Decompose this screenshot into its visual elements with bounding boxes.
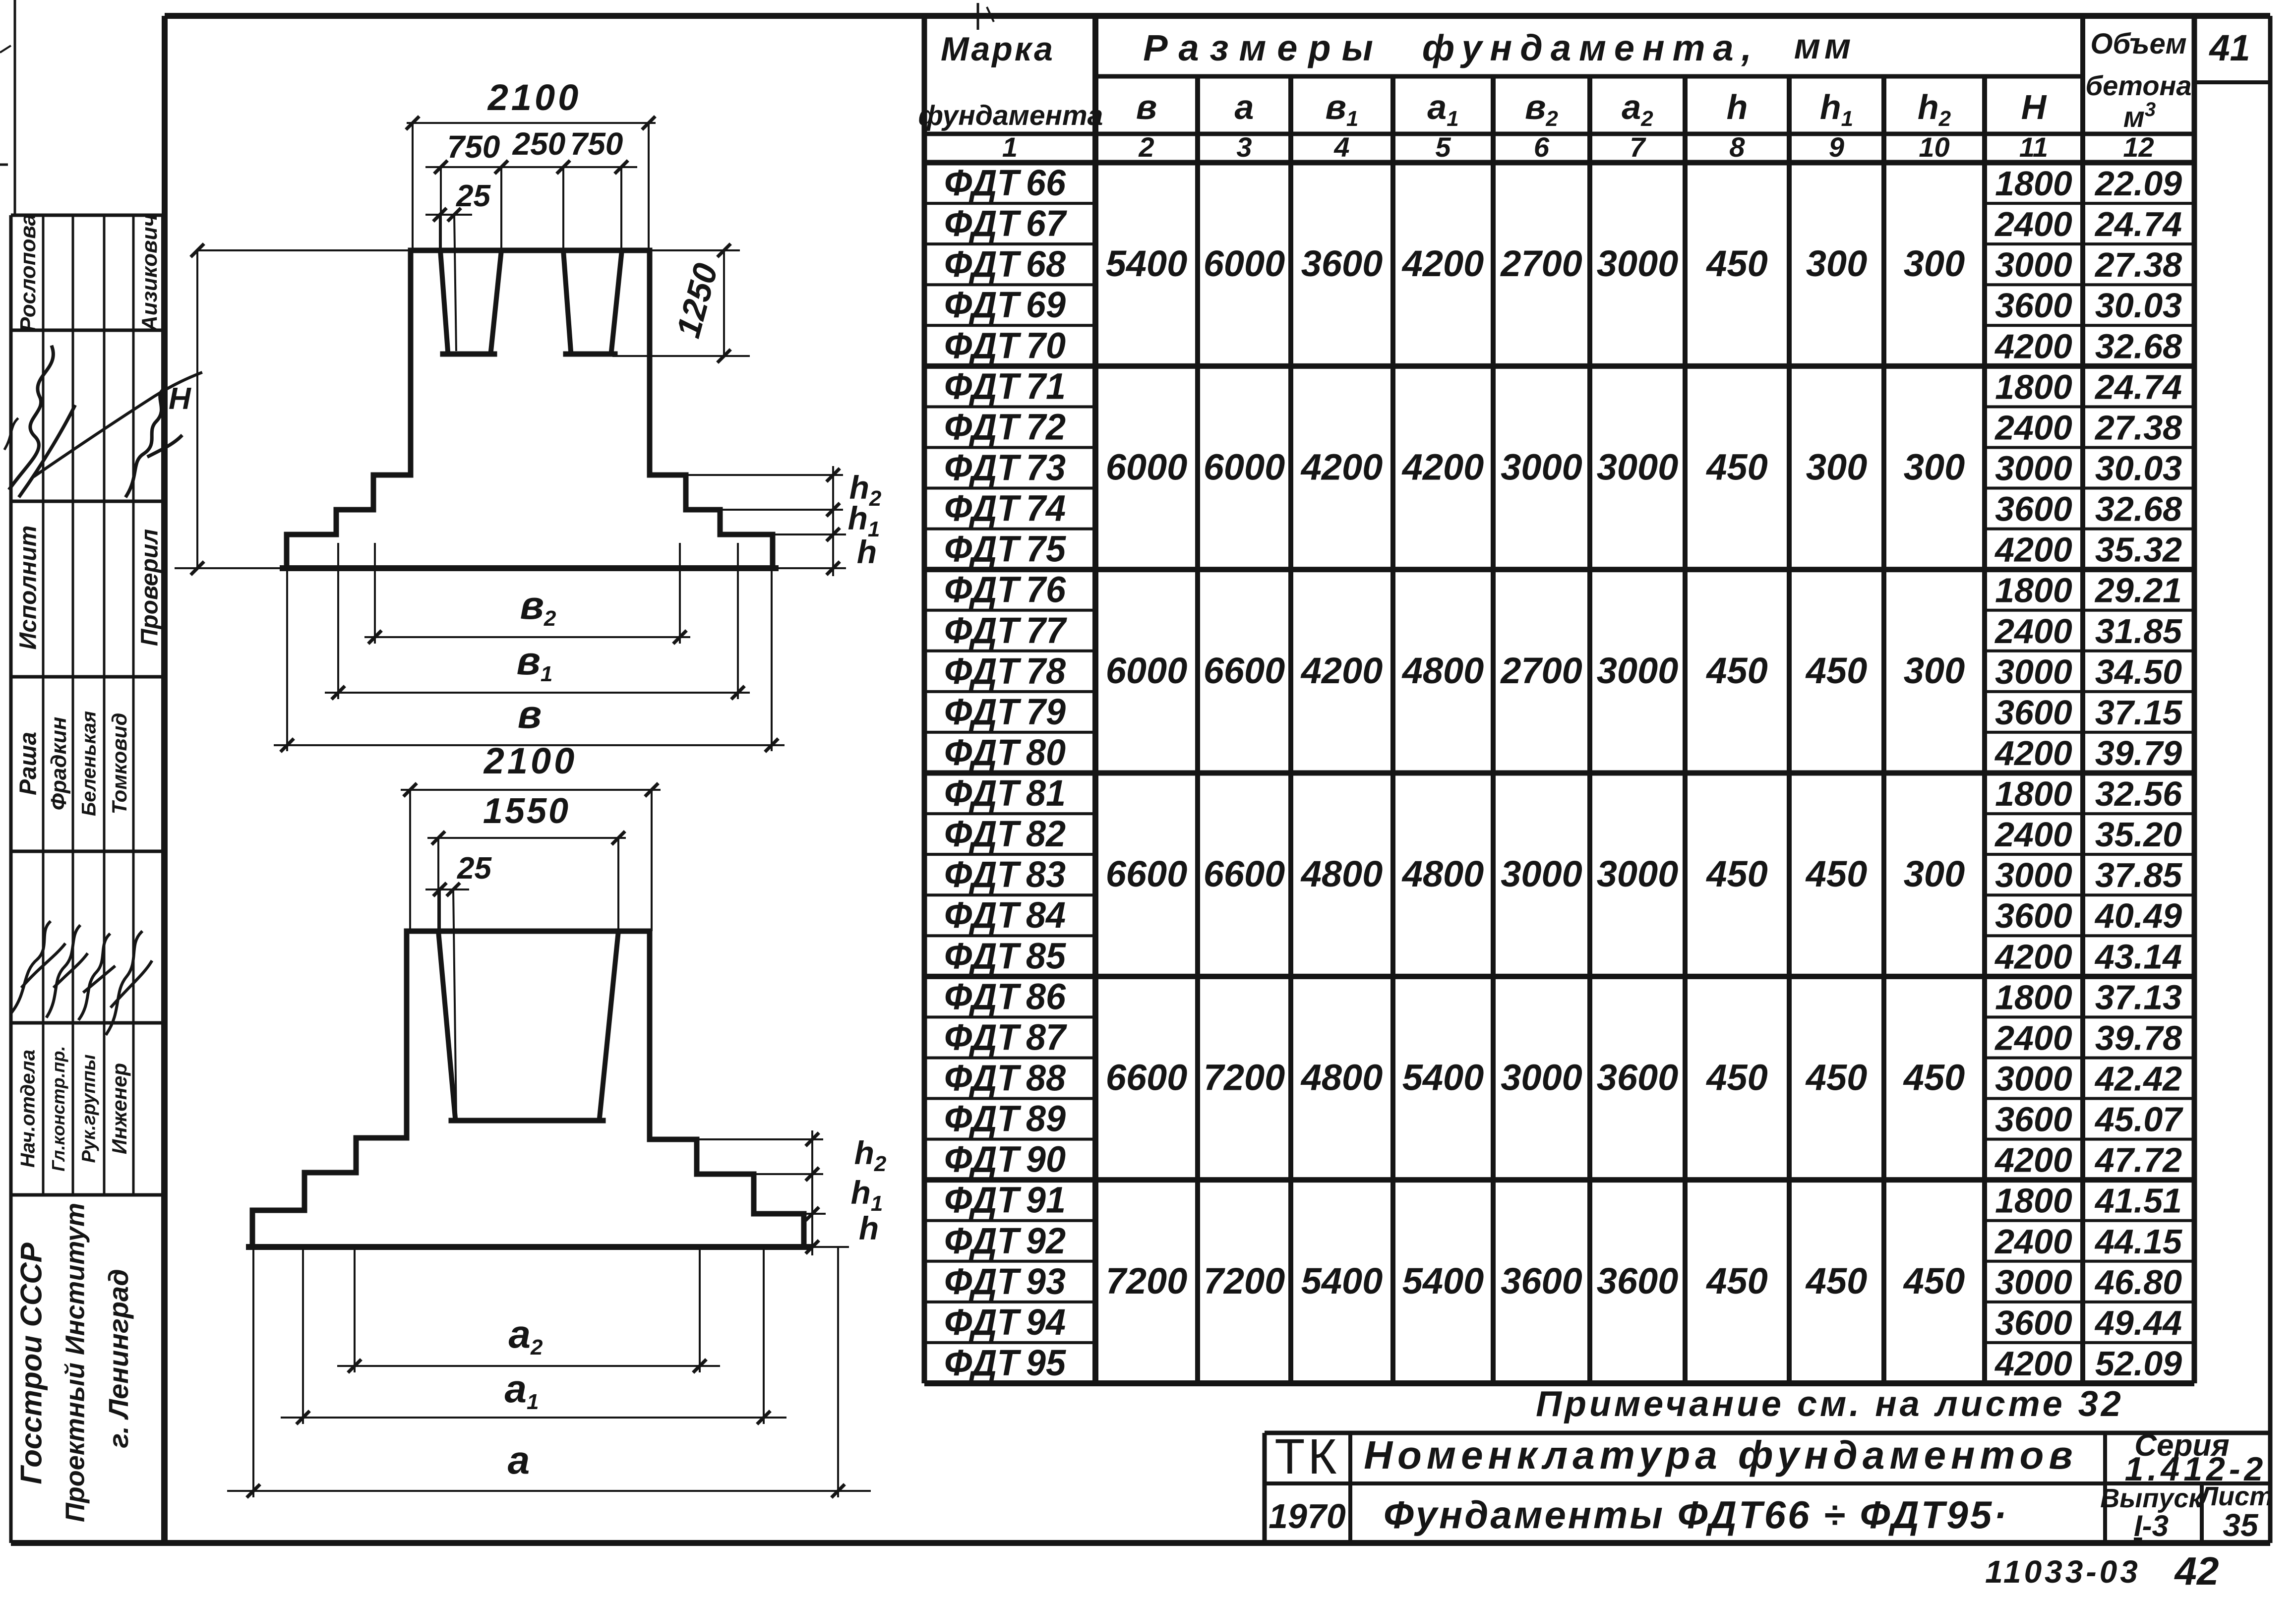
- svg-text:450: 450: [1805, 1260, 1867, 1302]
- svg-text:3000: 3000: [1995, 1060, 2072, 1098]
- svg-text:Рук.группы: Рук.группы: [79, 1055, 100, 1163]
- svg-text:4200: 4200: [1994, 734, 2072, 772]
- svg-text:ФДТ 88: ФДТ 88: [944, 1058, 1066, 1099]
- svg-text:29.21: 29.21: [2094, 571, 2182, 610]
- svg-text:450: 450: [1705, 1260, 1767, 1302]
- svg-text:10: 10: [1919, 131, 1949, 163]
- svg-text:40.49: 40.49: [2094, 896, 2182, 935]
- svg-text:2: 2: [1138, 131, 1154, 163]
- svg-text:32.68: 32.68: [2095, 490, 2182, 529]
- svg-text:ФДТ 76: ФДТ 76: [944, 569, 1066, 610]
- svg-text:а: а: [508, 1438, 530, 1482]
- svg-text:2700: 2700: [1500, 650, 1582, 691]
- svg-text:Номенклатура фундаментов: Номенклатура фундаментов: [1364, 1433, 2077, 1477]
- svg-text:1800: 1800: [1995, 367, 2072, 406]
- svg-text:42.42: 42.42: [2094, 1060, 2182, 1098]
- svg-text:7200: 7200: [1204, 1057, 1285, 1098]
- svg-text:3000: 3000: [1995, 245, 2072, 284]
- svg-text:3000: 3000: [1597, 853, 1679, 894]
- svg-text:2400: 2400: [1994, 205, 2072, 243]
- svg-text:ФДТ 94: ФДТ 94: [944, 1302, 1066, 1343]
- svg-text:Проверил: Проверил: [136, 529, 163, 646]
- svg-text:ФДТ 66: ФДТ 66: [944, 162, 1066, 203]
- svg-text:Лист: Лист: [2198, 1481, 2273, 1511]
- svg-text:4800: 4800: [1401, 650, 1484, 691]
- svg-text:6000: 6000: [1204, 243, 1285, 284]
- svg-text:44.15: 44.15: [2094, 1222, 2182, 1261]
- svg-text:2100: 2100: [483, 740, 578, 781]
- svg-text:5400: 5400: [1301, 1260, 1383, 1302]
- svg-text:4800: 4800: [1300, 853, 1383, 894]
- svg-text:35.20: 35.20: [2095, 815, 2182, 854]
- svg-text:3000: 3000: [1597, 243, 1679, 284]
- svg-text:3000: 3000: [1995, 449, 2072, 488]
- svg-text:3600: 3600: [1301, 243, 1383, 284]
- svg-text:3000: 3000: [1995, 856, 2072, 894]
- svg-text:4200: 4200: [1994, 531, 2072, 569]
- svg-text:31.85: 31.85: [2095, 612, 2182, 651]
- svg-text:42: 42: [2174, 1549, 2219, 1593]
- svg-text:ФДТ 67: ФДТ 67: [944, 203, 1068, 244]
- svg-text:22.09: 22.09: [2094, 164, 2182, 203]
- svg-text:24.74: 24.74: [2094, 205, 2182, 243]
- svg-text:750: 750: [570, 126, 623, 162]
- svg-text:3600: 3600: [1995, 1100, 2072, 1139]
- svg-text:3600: 3600: [1995, 490, 2072, 529]
- svg-text:3000: 3000: [1501, 447, 1582, 488]
- svg-text:4200: 4200: [1300, 650, 1383, 691]
- svg-text:7: 7: [1630, 131, 1646, 163]
- svg-text:3600: 3600: [1995, 286, 2072, 325]
- svg-text:41.51: 41.51: [2094, 1182, 2182, 1220]
- svg-text:6600: 6600: [1204, 650, 1285, 691]
- svg-text:3600: 3600: [1995, 693, 2072, 732]
- svg-text:35: 35: [2223, 1507, 2259, 1543]
- svg-text:450: 450: [1705, 650, 1767, 691]
- svg-text:1800: 1800: [1995, 164, 2072, 203]
- svg-text:300: 300: [1806, 243, 1867, 284]
- svg-text:Госстрои СССР: Госстрои СССР: [15, 1242, 48, 1484]
- svg-text:Раша: Раша: [15, 732, 41, 795]
- svg-text:Рослопова: Рослопова: [16, 214, 40, 332]
- svg-text:37.15: 37.15: [2095, 693, 2182, 732]
- svg-text:Гл.констр.пр.: Гл.констр.пр.: [48, 1046, 68, 1171]
- svg-text:Фундаменты ФДТ66 ÷ ФДТ95·: Фундаменты ФДТ66 ÷ ФДТ95·: [1384, 1493, 2008, 1537]
- svg-text:Инженер: Инженер: [108, 1063, 131, 1154]
- svg-text:ФДТ 89: ФДТ 89: [944, 1098, 1066, 1139]
- svg-text:Размеры: Размеры: [1143, 27, 1384, 68]
- svg-text:750: 750: [447, 129, 500, 165]
- svg-text:1800: 1800: [1995, 774, 2072, 813]
- svg-text:32.56: 32.56: [2095, 774, 2182, 813]
- svg-text:Томковид: Томковид: [108, 713, 131, 815]
- svg-text:12: 12: [2123, 131, 2154, 163]
- svg-text:Марка: Марка: [941, 30, 1055, 68]
- svg-text:ФДТ 69: ФДТ 69: [944, 284, 1066, 325]
- svg-text:г. Ленинград: г. Ленинград: [103, 1269, 134, 1448]
- svg-text:бетона: бетона: [2085, 70, 2191, 101]
- svg-text:ФДТ 74: ФДТ 74: [944, 488, 1066, 529]
- svg-text:6600: 6600: [1106, 1057, 1188, 1098]
- svg-text:Аизикович: Аизикович: [137, 214, 162, 332]
- svg-text:300: 300: [1904, 853, 1965, 894]
- svg-text:6600: 6600: [1204, 853, 1285, 894]
- svg-text:45.07: 45.07: [2094, 1100, 2183, 1139]
- svg-text:ФДТ 92: ФДТ 92: [944, 1220, 1066, 1261]
- svg-text:450: 450: [1705, 447, 1767, 488]
- svg-text:450: 450: [1805, 853, 1867, 894]
- svg-text:450: 450: [1805, 1057, 1867, 1098]
- svg-text:47.72: 47.72: [2094, 1141, 2182, 1180]
- svg-text:3000: 3000: [1995, 1263, 2072, 1302]
- svg-text:11: 11: [2019, 131, 2048, 163]
- svg-text:5400: 5400: [1402, 1260, 1484, 1302]
- svg-text:1800: 1800: [1995, 1182, 2072, 1220]
- svg-text:2400: 2400: [1994, 1018, 2072, 1057]
- svg-text:ФДТ 68: ФДТ 68: [944, 243, 1066, 285]
- svg-text:5400: 5400: [1402, 1057, 1484, 1098]
- svg-text:Фрадкин: Фрадкин: [47, 717, 71, 811]
- svg-text:фундамента: фундамента: [918, 100, 1103, 131]
- svg-text:1970: 1970: [1269, 1497, 1346, 1536]
- svg-text:4200: 4200: [1401, 243, 1484, 284]
- svg-text:41: 41: [2208, 27, 2250, 68]
- svg-text:2400: 2400: [1994, 1222, 2072, 1261]
- svg-text:ФДТ 86: ФДТ 86: [944, 976, 1066, 1017]
- svg-text:Проектный Институт: Проектный Институт: [60, 1203, 90, 1522]
- svg-text:ФДТ 81: ФДТ 81: [944, 772, 1066, 814]
- svg-text:3000: 3000: [1501, 1057, 1582, 1098]
- svg-text:24.74: 24.74: [2094, 367, 2182, 406]
- svg-text:6: 6: [1534, 131, 1550, 163]
- svg-text:30.03: 30.03: [2095, 286, 2182, 325]
- svg-text:5: 5: [1435, 131, 1451, 163]
- svg-text:25: 25: [456, 179, 491, 213]
- svg-text:I-3: I-3: [2134, 1509, 2169, 1542]
- svg-text:6000: 6000: [1204, 447, 1285, 488]
- svg-text:ФДТ 93: ФДТ 93: [944, 1261, 1066, 1302]
- svg-text:2700: 2700: [1500, 243, 1582, 284]
- svg-text:1800: 1800: [1995, 978, 2072, 1016]
- svg-text:7200: 7200: [1204, 1260, 1285, 1302]
- svg-text:30.03: 30.03: [2095, 449, 2182, 488]
- svg-text:2400: 2400: [1994, 408, 2072, 447]
- svg-text:4200: 4200: [1994, 937, 2072, 976]
- svg-text:ФДТ 82: ФДТ 82: [944, 813, 1066, 854]
- svg-text:39.79: 39.79: [2095, 734, 2182, 772]
- svg-text:в: в: [518, 692, 542, 736]
- svg-text:4800: 4800: [1401, 853, 1484, 894]
- svg-text:ФДТ 70: ФДТ 70: [944, 325, 1066, 366]
- svg-text:2400: 2400: [1994, 815, 2072, 854]
- svg-text:5400: 5400: [1106, 243, 1188, 284]
- svg-text:9: 9: [1829, 131, 1844, 163]
- svg-text:34.50: 34.50: [2095, 652, 2182, 691]
- svg-text:7200: 7200: [1106, 1260, 1188, 1302]
- svg-text:3600: 3600: [1597, 1260, 1679, 1302]
- svg-text:3600: 3600: [1995, 896, 2072, 935]
- svg-text:мм: мм: [1794, 27, 1855, 66]
- svg-text:300: 300: [1806, 447, 1867, 488]
- svg-text:3600: 3600: [1995, 1303, 2072, 1342]
- svg-text:ФДТ 78: ФДТ 78: [944, 651, 1066, 692]
- svg-text:Беленькая: Беленькая: [78, 711, 100, 816]
- svg-text:ФДТ 75: ФДТ 75: [944, 529, 1067, 570]
- svg-text:Н: Н: [169, 382, 191, 416]
- svg-text:1800: 1800: [1995, 571, 2072, 610]
- svg-text:h: h: [857, 533, 877, 570]
- svg-text:3600: 3600: [1597, 1057, 1679, 1098]
- svg-text:27.38: 27.38: [2094, 245, 2182, 284]
- svg-text:4200: 4200: [1994, 1141, 2072, 1180]
- svg-text:ФДТ 85: ФДТ 85: [944, 935, 1067, 976]
- svg-text:25: 25: [457, 851, 492, 886]
- svg-text:450: 450: [1705, 1057, 1767, 1098]
- svg-text:3600: 3600: [1501, 1260, 1582, 1302]
- svg-text:37.85: 37.85: [2095, 856, 2182, 894]
- svg-text:450: 450: [1903, 1260, 1965, 1302]
- svg-text:1: 1: [1002, 131, 1018, 163]
- svg-text:4800: 4800: [1300, 1057, 1383, 1098]
- svg-text:ФДТ 80: ФДТ 80: [944, 732, 1066, 773]
- svg-text:300: 300: [1904, 243, 1965, 284]
- svg-text:ФДТ 91: ФДТ 91: [944, 1180, 1066, 1221]
- svg-text:1550: 1550: [483, 791, 570, 831]
- svg-text:ФДТ 84: ФДТ 84: [944, 894, 1066, 936]
- svg-text:450: 450: [1903, 1057, 1965, 1098]
- svg-text:Н: Н: [2021, 88, 2047, 126]
- svg-text:Примечание см. на листе 32: Примечание см. на листе 32: [1536, 1384, 2124, 1424]
- svg-text:3: 3: [1236, 131, 1252, 163]
- svg-text:ФДТ 79: ФДТ 79: [944, 691, 1066, 732]
- svg-text:ФДТ 71: ФДТ 71: [944, 365, 1066, 407]
- svg-text:ФДТ 90: ФДТ 90: [944, 1139, 1066, 1180]
- svg-text:4200: 4200: [1994, 327, 2072, 365]
- svg-text:3000: 3000: [1597, 650, 1679, 691]
- svg-text:Выпуск: Выпуск: [2100, 1483, 2203, 1513]
- svg-text:Нач.отдела: Нач.отдела: [17, 1050, 39, 1168]
- svg-text:300: 300: [1904, 650, 1965, 691]
- svg-text:32.68: 32.68: [2095, 327, 2182, 365]
- svg-text:27.38: 27.38: [2094, 408, 2182, 447]
- svg-text:37.13: 37.13: [2095, 978, 2182, 1016]
- svg-text:h: h: [859, 1210, 879, 1246]
- svg-text:450: 450: [1805, 650, 1867, 691]
- svg-text:фундамента,: фундамента,: [1422, 27, 1760, 68]
- svg-text:ФДТ 87: ФДТ 87: [944, 1016, 1068, 1058]
- svg-text:ФДТ 77: ФДТ 77: [944, 610, 1068, 651]
- svg-text:ФДТ 83: ФДТ 83: [944, 854, 1066, 895]
- svg-text:Объем: Объем: [2090, 28, 2186, 60]
- svg-text:h: h: [1727, 88, 1748, 126]
- svg-text:ФДТ 72: ФДТ 72: [944, 406, 1066, 447]
- svg-text:ФДТ 73: ФДТ 73: [944, 447, 1066, 488]
- svg-text:43.14: 43.14: [2094, 937, 2182, 976]
- svg-text:52.09: 52.09: [2095, 1344, 2182, 1383]
- svg-text:6000: 6000: [1106, 447, 1188, 488]
- svg-text:39.78: 39.78: [2095, 1018, 2182, 1057]
- svg-text:ФДТ 95: ФДТ 95: [944, 1342, 1067, 1383]
- svg-text:11033-03: 11033-03: [1985, 1554, 2141, 1590]
- svg-text:8: 8: [1729, 131, 1745, 163]
- svg-text:450: 450: [1705, 243, 1767, 284]
- svg-text:Исполнит: Исполнит: [15, 526, 41, 650]
- svg-text:2100: 2100: [487, 77, 582, 118]
- svg-text:4200: 4200: [1994, 1344, 2072, 1383]
- svg-text:2400: 2400: [1994, 612, 2072, 651]
- svg-text:3000: 3000: [1501, 853, 1582, 894]
- svg-text:250: 250: [512, 126, 566, 162]
- svg-text:а: а: [1235, 88, 1254, 126]
- svg-text:6000: 6000: [1106, 650, 1188, 691]
- svg-text:300: 300: [1904, 447, 1965, 488]
- svg-text:46.80: 46.80: [2094, 1263, 2182, 1302]
- svg-text:4200: 4200: [1401, 447, 1484, 488]
- svg-text:49.44: 49.44: [2094, 1303, 2182, 1342]
- svg-text:35.32: 35.32: [2095, 531, 2182, 569]
- svg-text:4200: 4200: [1300, 447, 1383, 488]
- svg-text:6600: 6600: [1106, 853, 1188, 894]
- svg-text:ТК: ТК: [1274, 1429, 1339, 1484]
- svg-text:в: в: [1136, 88, 1157, 126]
- svg-text:450: 450: [1705, 853, 1767, 894]
- svg-text:3000: 3000: [1597, 447, 1679, 488]
- svg-text:4: 4: [1333, 131, 1349, 163]
- svg-text:3000: 3000: [1995, 652, 2072, 691]
